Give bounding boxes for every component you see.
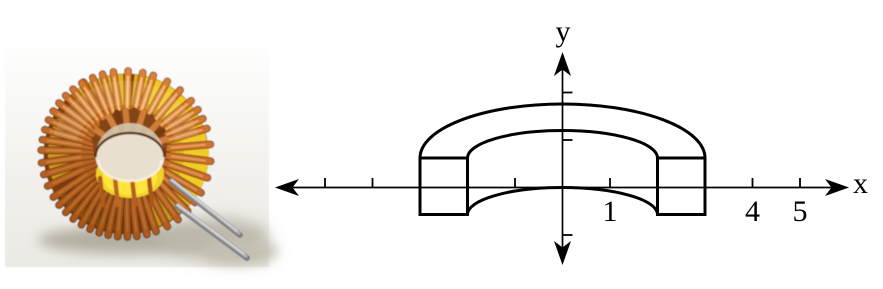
yellow core inner bottom: [96, 150, 164, 198]
svg-text:4: 4: [745, 195, 760, 228]
x tick 4: [752, 178, 754, 188]
photo shadow under leads: [159, 218, 269, 258]
svg-text:5: 5: [793, 195, 808, 228]
x tick -4: [372, 178, 374, 188]
x tick 2: [657, 178, 659, 188]
inner shadow around hole: [84, 151, 122, 194]
y tick -1: [563, 234, 573, 236]
y tick 1: [563, 139, 573, 141]
y axis top arrowhead: [554, 52, 571, 76]
svg-text:1: 1: [603, 195, 618, 228]
right end rectangle: [658, 158, 706, 215]
photo shadow under inductor: [38, 226, 218, 254]
x tick 3: [704, 178, 706, 188]
y axis bottom arrowhead: [554, 241, 571, 265]
y axis: [562, 55, 564, 262]
x tick -1: [514, 178, 516, 188]
yellow core showing between windings: [133, 93, 189, 147]
x axis right arrowhead: [825, 179, 849, 196]
photo background: [5, 38, 269, 267]
y tick 2: [563, 92, 573, 94]
svg-text:x: x: [853, 167, 868, 200]
glossy sheen on upper windings: [65, 93, 187, 138]
lead wires: [171, 181, 240, 235]
axes diagram: [275, 15, 868, 265]
left end rectangle: [420, 158, 468, 215]
x axis left arrowhead: [275, 179, 299, 196]
hole opening: [96, 133, 165, 181]
inductor body base: [44, 74, 209, 235]
svg-text:y: y: [556, 15, 571, 48]
x tick -2: [467, 178, 469, 188]
x tick 5: [799, 178, 801, 188]
inner wall copper above hole: [93, 109, 167, 185]
x tick -5: [324, 178, 326, 188]
inductor photo: [5, 38, 278, 267]
washer inner arc: [468, 131, 658, 159]
copper windings: [41, 71, 211, 237]
x tick 1: [609, 178, 611, 188]
washer bottom arc: [468, 188, 658, 215]
washer outer arc: [420, 104, 705, 158]
x tick -3: [419, 178, 421, 188]
x axis: [278, 187, 846, 189]
